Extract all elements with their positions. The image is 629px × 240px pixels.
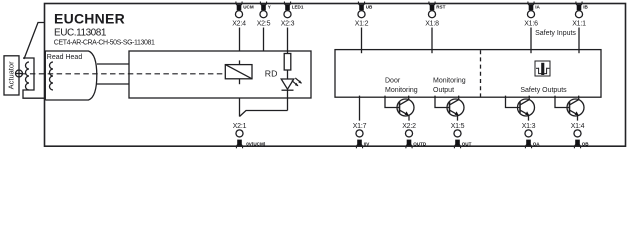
transistor Q3 bbox=[506, 96, 535, 121]
LED RD bbox=[281, 79, 294, 89]
terminal X1:1 (IB) bbox=[572, 2, 588, 54]
terminal X1:4 (OB) bbox=[571, 123, 590, 148]
safety outputs icon bbox=[535, 61, 550, 76]
svg-text:IA: IA bbox=[535, 5, 540, 10]
transistor Q4 bbox=[555, 96, 584, 121]
transistor Q1 bbox=[385, 96, 414, 121]
svg-text:RST: RST bbox=[436, 5, 445, 10]
terminal X1:8 (RST) bbox=[425, 2, 445, 54]
actuator label bbox=[6, 61, 15, 89]
svg-text:X1:7: X1:7 bbox=[353, 123, 367, 130]
svg-text:0V: 0V bbox=[364, 141, 371, 146]
read head coil L2 bbox=[50, 62, 54, 90]
svg-text:Monitoring: Monitoring bbox=[385, 87, 418, 94]
svg-text:CET4-AR-CRA-CH-50S-SG-113081: CET4-AR-CRA-CH-50S-SG-113081 bbox=[54, 39, 155, 46]
svg-text:LED1: LED1 bbox=[292, 5, 304, 10]
svg-text:X1:4: X1:4 bbox=[571, 123, 585, 130]
svg-text:X2:4: X2:4 bbox=[232, 20, 246, 27]
svg-text:OB: OB bbox=[582, 141, 590, 146]
read head box bbox=[45, 51, 97, 100]
svg-text:Monitoring: Monitoring bbox=[433, 78, 466, 85]
svg-text:IB: IB bbox=[583, 5, 588, 10]
center line (dash-dot) bbox=[21, 73, 225, 75]
cable channel bbox=[97, 63, 129, 65]
svg-text:OUT: OUT bbox=[462, 141, 472, 146]
evaluation unit box bbox=[129, 51, 311, 98]
svg-text:X2:2: X2:2 bbox=[402, 123, 416, 130]
terminal X2:4 (UCM) bbox=[232, 2, 254, 28]
wire relay down bbox=[239, 79, 241, 84]
actuator coil housing bbox=[23, 58, 45, 98]
terminal X2:2 (OUTD) bbox=[402, 123, 427, 148]
svg-text:0V(UCM): 0V(UCM) bbox=[246, 141, 266, 146]
svg-text:X1:8: X1:8 bbox=[425, 20, 439, 27]
actuator coil L1 bbox=[26, 62, 29, 90]
svg-text:EUC.113081: EUC.113081 bbox=[54, 28, 107, 39]
actuator box bbox=[4, 56, 19, 95]
terminal X1:5 (OUT) bbox=[451, 123, 472, 148]
svg-text:Safety Outputs: Safety Outputs bbox=[520, 87, 567, 94]
svg-text:X2:1: X2:1 bbox=[233, 123, 247, 130]
svg-text:X1:6: X1:6 bbox=[524, 20, 538, 27]
wire X2:3 to resistor bbox=[287, 28, 289, 54]
terminal X2:3 (LED1) bbox=[281, 2, 304, 28]
svg-text:Actuator: Actuator bbox=[6, 61, 15, 89]
terminal X1:7 (0V) bbox=[353, 96, 371, 149]
terminal X2:5 (Y) bbox=[257, 2, 271, 52]
terminal X1:6 (IA) bbox=[524, 2, 540, 54]
coupling symbol (circle-plus) bbox=[16, 70, 23, 77]
right function box bbox=[335, 50, 601, 98]
terminal X1:3 (OA) bbox=[522, 123, 541, 148]
svg-text:OUTD: OUTD bbox=[413, 141, 427, 146]
relay K1 bbox=[225, 65, 252, 79]
svg-text:X1:1: X1:1 bbox=[572, 20, 586, 27]
wire LED down bbox=[287, 90, 289, 110]
svg-text:EUCHNER: EUCHNER bbox=[54, 10, 125, 26]
svg-text:Door: Door bbox=[385, 78, 401, 85]
svg-text:X2:5: X2:5 bbox=[257, 20, 271, 27]
wire relay to X2:4 bbox=[239, 28, 241, 52]
RD label bbox=[265, 68, 278, 78]
read head label bbox=[47, 54, 83, 61]
dashed divider bbox=[480, 50, 482, 97]
wire LED branch to 0V node bbox=[240, 111, 288, 117]
svg-text:Output: Output bbox=[433, 87, 454, 94]
transistor Q2 bbox=[435, 96, 464, 121]
terminal X2:1 (0V(UCM)) bbox=[233, 123, 266, 148]
svg-text:OA: OA bbox=[533, 141, 541, 146]
svg-text:Read Head: Read Head bbox=[47, 54, 83, 61]
resistor R1 bbox=[284, 54, 291, 71]
svg-text:Y: Y bbox=[268, 5, 271, 10]
logo text EUCHNER bbox=[54, 10, 155, 46]
svg-text:UB: UB bbox=[366, 5, 373, 10]
actuator callout line bbox=[24, 23, 45, 60]
svg-text:RD: RD bbox=[265, 68, 278, 78]
svg-text:Safety Inputs: Safety Inputs bbox=[535, 30, 576, 37]
terminal X1:2 (UB) bbox=[355, 2, 373, 54]
svg-text:X1:3: X1:3 bbox=[522, 123, 536, 130]
svg-text:X1:2: X1:2 bbox=[355, 20, 369, 27]
device outer frame bbox=[45, 4, 626, 147]
svg-text:X2:3: X2:3 bbox=[281, 20, 295, 27]
svg-text:UCM: UCM bbox=[243, 5, 254, 10]
wire resistor to LED bbox=[287, 70, 289, 79]
svg-text:X1:5: X1:5 bbox=[451, 123, 465, 130]
